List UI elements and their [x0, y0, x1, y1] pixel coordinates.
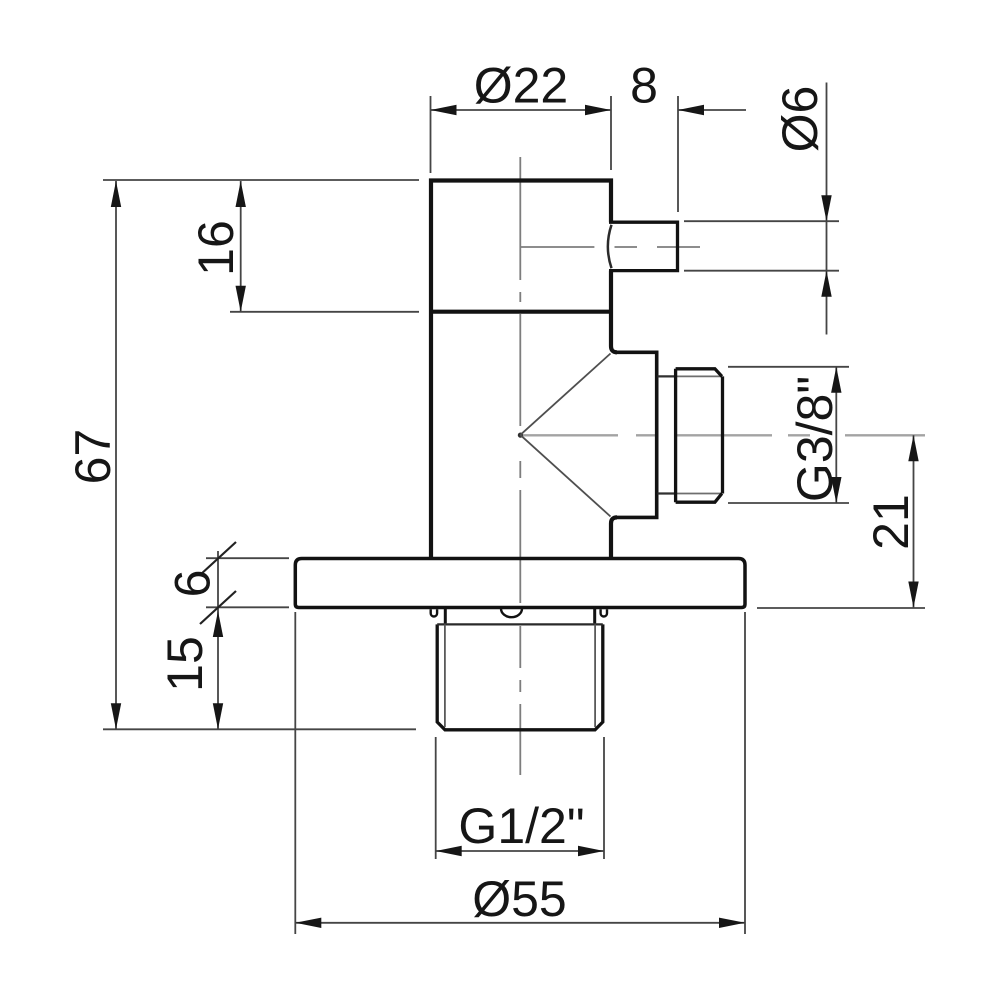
dimension 6 slash tick bottom	[200, 591, 236, 624]
svg-text:G1/2": G1/2"	[458, 798, 584, 854]
dimension 15 arrows	[213, 611, 223, 637]
svg-text:67: 67	[65, 429, 121, 485]
G1/2 thread minor lines	[445, 624, 595, 727]
dimension Ø55 line	[295, 922, 745, 924]
dimension 21 bottom extension line	[757, 607, 925, 609]
thread relief notch right	[601, 609, 607, 616]
dimension Ø22 arrows	[431, 105, 457, 115]
G1/2 thread outline	[437, 624, 603, 729]
dimension G1/2 arrows	[436, 846, 462, 856]
center line vertical (valve axis)	[519, 157, 521, 775]
svg-text:16: 16	[188, 220, 244, 276]
svg-text:Ø55: Ø55	[472, 871, 567, 927]
dimension Ø22 extension lines	[431, 96, 612, 173]
dimension 21 arrows	[908, 435, 918, 461]
dimension 67 arrows	[111, 181, 121, 207]
valve body outline	[431, 181, 617, 559]
dimension G3/8 extension lines	[728, 367, 849, 503]
G1/2 thread top edge	[437, 623, 603, 625]
svg-text:G3/8": G3/8"	[787, 376, 843, 502]
valve cone apex junction	[518, 433, 523, 438]
dimension 16 bottom extension line	[230, 311, 419, 313]
dimension Ø6 line	[826, 83, 828, 335]
valve cone diagonal lower	[520, 435, 610, 517]
dimension 16/67 top extension line	[103, 179, 419, 181]
dimension 8 line	[678, 109, 746, 111]
center line horizontal (side outlet axis)	[520, 434, 925, 436]
flange (Ø55 plate)	[295, 559, 745, 608]
body divider line (cap joint)	[429, 310, 611, 314]
valve cone diagonal upper	[520, 354, 610, 435]
svg-text:Ø22: Ø22	[474, 58, 569, 114]
dimension G1/2 line	[436, 850, 604, 852]
seat arc under flange	[501, 609, 522, 618]
dimension Ø6 arrows	[821, 195, 831, 221]
dimension 21 line	[913, 435, 915, 607]
dimension G3/8 line	[835, 367, 837, 503]
top spout (Ø6 outlet)	[609, 222, 678, 270]
svg-text:8: 8	[630, 58, 658, 114]
svg-text:Ø6: Ø6	[772, 86, 828, 153]
dimension Ø6 extension lines	[684, 221, 839, 271]
dimension 8 extension line	[677, 96, 679, 212]
svg-text:15: 15	[157, 636, 213, 692]
G3/8 thread outline	[676, 369, 723, 502]
dimension G1/2 extension lines	[436, 737, 604, 859]
dimension 8 arrow	[678, 105, 704, 115]
dimension 6/15 line	[217, 551, 219, 729]
svg-text:21: 21	[863, 494, 919, 550]
dimension 67 line	[115, 181, 117, 729]
dimension 67 bottom extension line	[103, 728, 416, 730]
dimension Ø55 extension lines	[295, 612, 745, 934]
G3/8 neck minor lines	[658, 376, 722, 493]
dimension Ø22 line	[431, 109, 612, 111]
spout-body intersection arc	[608, 225, 612, 268]
dimension 16 line	[240, 181, 242, 312]
center line horizontal (top spout axis)	[520, 246, 700, 248]
dimension Ø55 arrows	[295, 918, 321, 928]
dimension 6 extension lines	[206, 558, 289, 607]
thread relief notch left	[431, 609, 437, 616]
svg-text:6: 6	[165, 570, 221, 598]
dimension 16 arrows	[236, 181, 246, 207]
side outlet boss	[615, 352, 657, 517]
dimension G3/8 arrows	[831, 367, 841, 393]
dimension 6 slash tick top	[200, 542, 236, 575]
G1/2 collar	[445, 608, 594, 624]
